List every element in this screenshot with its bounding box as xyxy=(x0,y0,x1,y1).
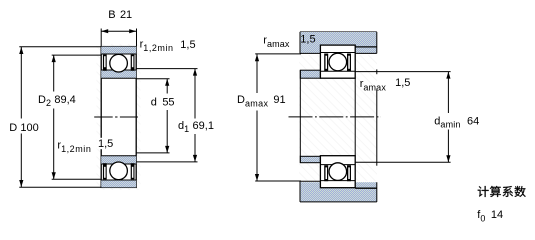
Damax top extension line xyxy=(255,53,301,55)
label 计算系数 (calculation factors) xyxy=(478,186,526,197)
left figure background texture xyxy=(97,44,141,190)
D2 bottom extension line xyxy=(52,178,101,180)
outer ring top (hatched) xyxy=(101,47,136,54)
bearing section top (right view): left seal xyxy=(324,54,328,72)
Damax bottom extension line xyxy=(255,180,301,182)
d bottom extension line xyxy=(136,152,169,154)
ball bottom xyxy=(110,162,128,180)
bearing section bottom (right view): outline xyxy=(320,156,355,188)
right figure background texture xyxy=(299,55,377,181)
seal top left xyxy=(103,55,107,71)
d1 bottom extension line xyxy=(136,161,197,163)
svg-text:D100: D100 xyxy=(9,122,39,134)
D2 top extension line xyxy=(52,54,101,56)
svg-text:B21: B21 xyxy=(108,9,132,21)
svg-text:f014: f014 xyxy=(477,209,503,223)
outer ring bottom (hatched) xyxy=(101,180,136,187)
r_amax leader vertical xyxy=(376,90,378,166)
housing bore line top xyxy=(355,46,377,48)
D bottom extension line xyxy=(19,186,101,188)
svg-text:Damax91: Damax91 xyxy=(237,94,286,108)
seal top right xyxy=(131,55,135,71)
dimension damin: line xyxy=(447,72,449,113)
svg-text:ramax: ramax xyxy=(263,34,290,48)
dimension d: line xyxy=(166,79,168,94)
shaft shoulder face line xyxy=(299,70,301,163)
svg-text:r1,2min: r1,2min xyxy=(140,39,174,53)
bearing section top (right view): right seal xyxy=(347,54,351,72)
bearing outline left view xyxy=(101,47,136,188)
housing top (hatched) xyxy=(300,32,377,54)
dimension d1: line xyxy=(194,69,196,119)
dimension B: line xyxy=(101,30,136,32)
r_amax tick top xyxy=(376,69,378,74)
D top extension line xyxy=(19,46,101,48)
bearing section top (right view): outline xyxy=(320,45,355,78)
housing bore line bottom xyxy=(355,187,377,189)
dimension D: line xyxy=(20,47,22,119)
bearing section bottom (right view): right seal xyxy=(347,165,351,181)
svg-text:1,5: 1,5 xyxy=(300,34,315,46)
svg-text:D289,4: D289,4 xyxy=(38,94,76,108)
svg-text:1,5: 1,5 xyxy=(98,138,113,150)
damin bottom extension line (shaft line) xyxy=(355,161,450,163)
d top extension line xyxy=(136,78,169,80)
housing bottom (hatched) xyxy=(300,182,377,202)
seal bottom right xyxy=(131,163,135,179)
centerline left view xyxy=(94,116,138,118)
dimension Damax: line xyxy=(256,54,258,93)
inner ring top (hatched) xyxy=(101,70,136,78)
bearing section top (right view): raceway lines xyxy=(320,52,355,54)
centerline right view xyxy=(289,116,382,118)
svg-text:1,5: 1,5 xyxy=(395,77,410,89)
dimension B: extension lines xyxy=(100,29,102,47)
bearing section top (right view): ball xyxy=(329,53,347,71)
dimension D2: line xyxy=(53,55,55,91)
svg-text:d169,1: d169,1 xyxy=(178,120,214,134)
dimension D2: arrows xyxy=(52,55,56,179)
dimension d: arrows xyxy=(165,79,169,153)
bearing section bottom (right view): ball xyxy=(329,163,347,181)
seal bottom left xyxy=(103,163,107,179)
svg-text:d55: d55 xyxy=(151,97,175,109)
shaft shoulder bottom (hatched) xyxy=(300,156,320,162)
svg-text:damin64: damin64 xyxy=(434,115,479,129)
dimension B: arrows xyxy=(101,29,136,33)
dimension D: arrows xyxy=(19,47,23,187)
svg-text:r1,2min: r1,2min xyxy=(57,140,91,154)
shaft shoulder top (hatched) xyxy=(300,70,320,78)
inner ring bottom (hatched) xyxy=(101,156,136,164)
dimension Damax: arrows xyxy=(255,54,259,181)
ball top xyxy=(110,54,128,72)
bearing section bottom (right view): raceway lines xyxy=(320,180,355,182)
svg-text:1,5: 1,5 xyxy=(180,39,195,51)
dimension d1: arrows xyxy=(193,69,197,162)
d1 top extension line xyxy=(136,68,197,70)
damin top extension line (shaft line) xyxy=(355,71,450,73)
bearing section bottom (right view): left seal xyxy=(324,165,328,181)
shaft end face line xyxy=(354,78,356,156)
dimension damin: arrows xyxy=(446,72,450,163)
